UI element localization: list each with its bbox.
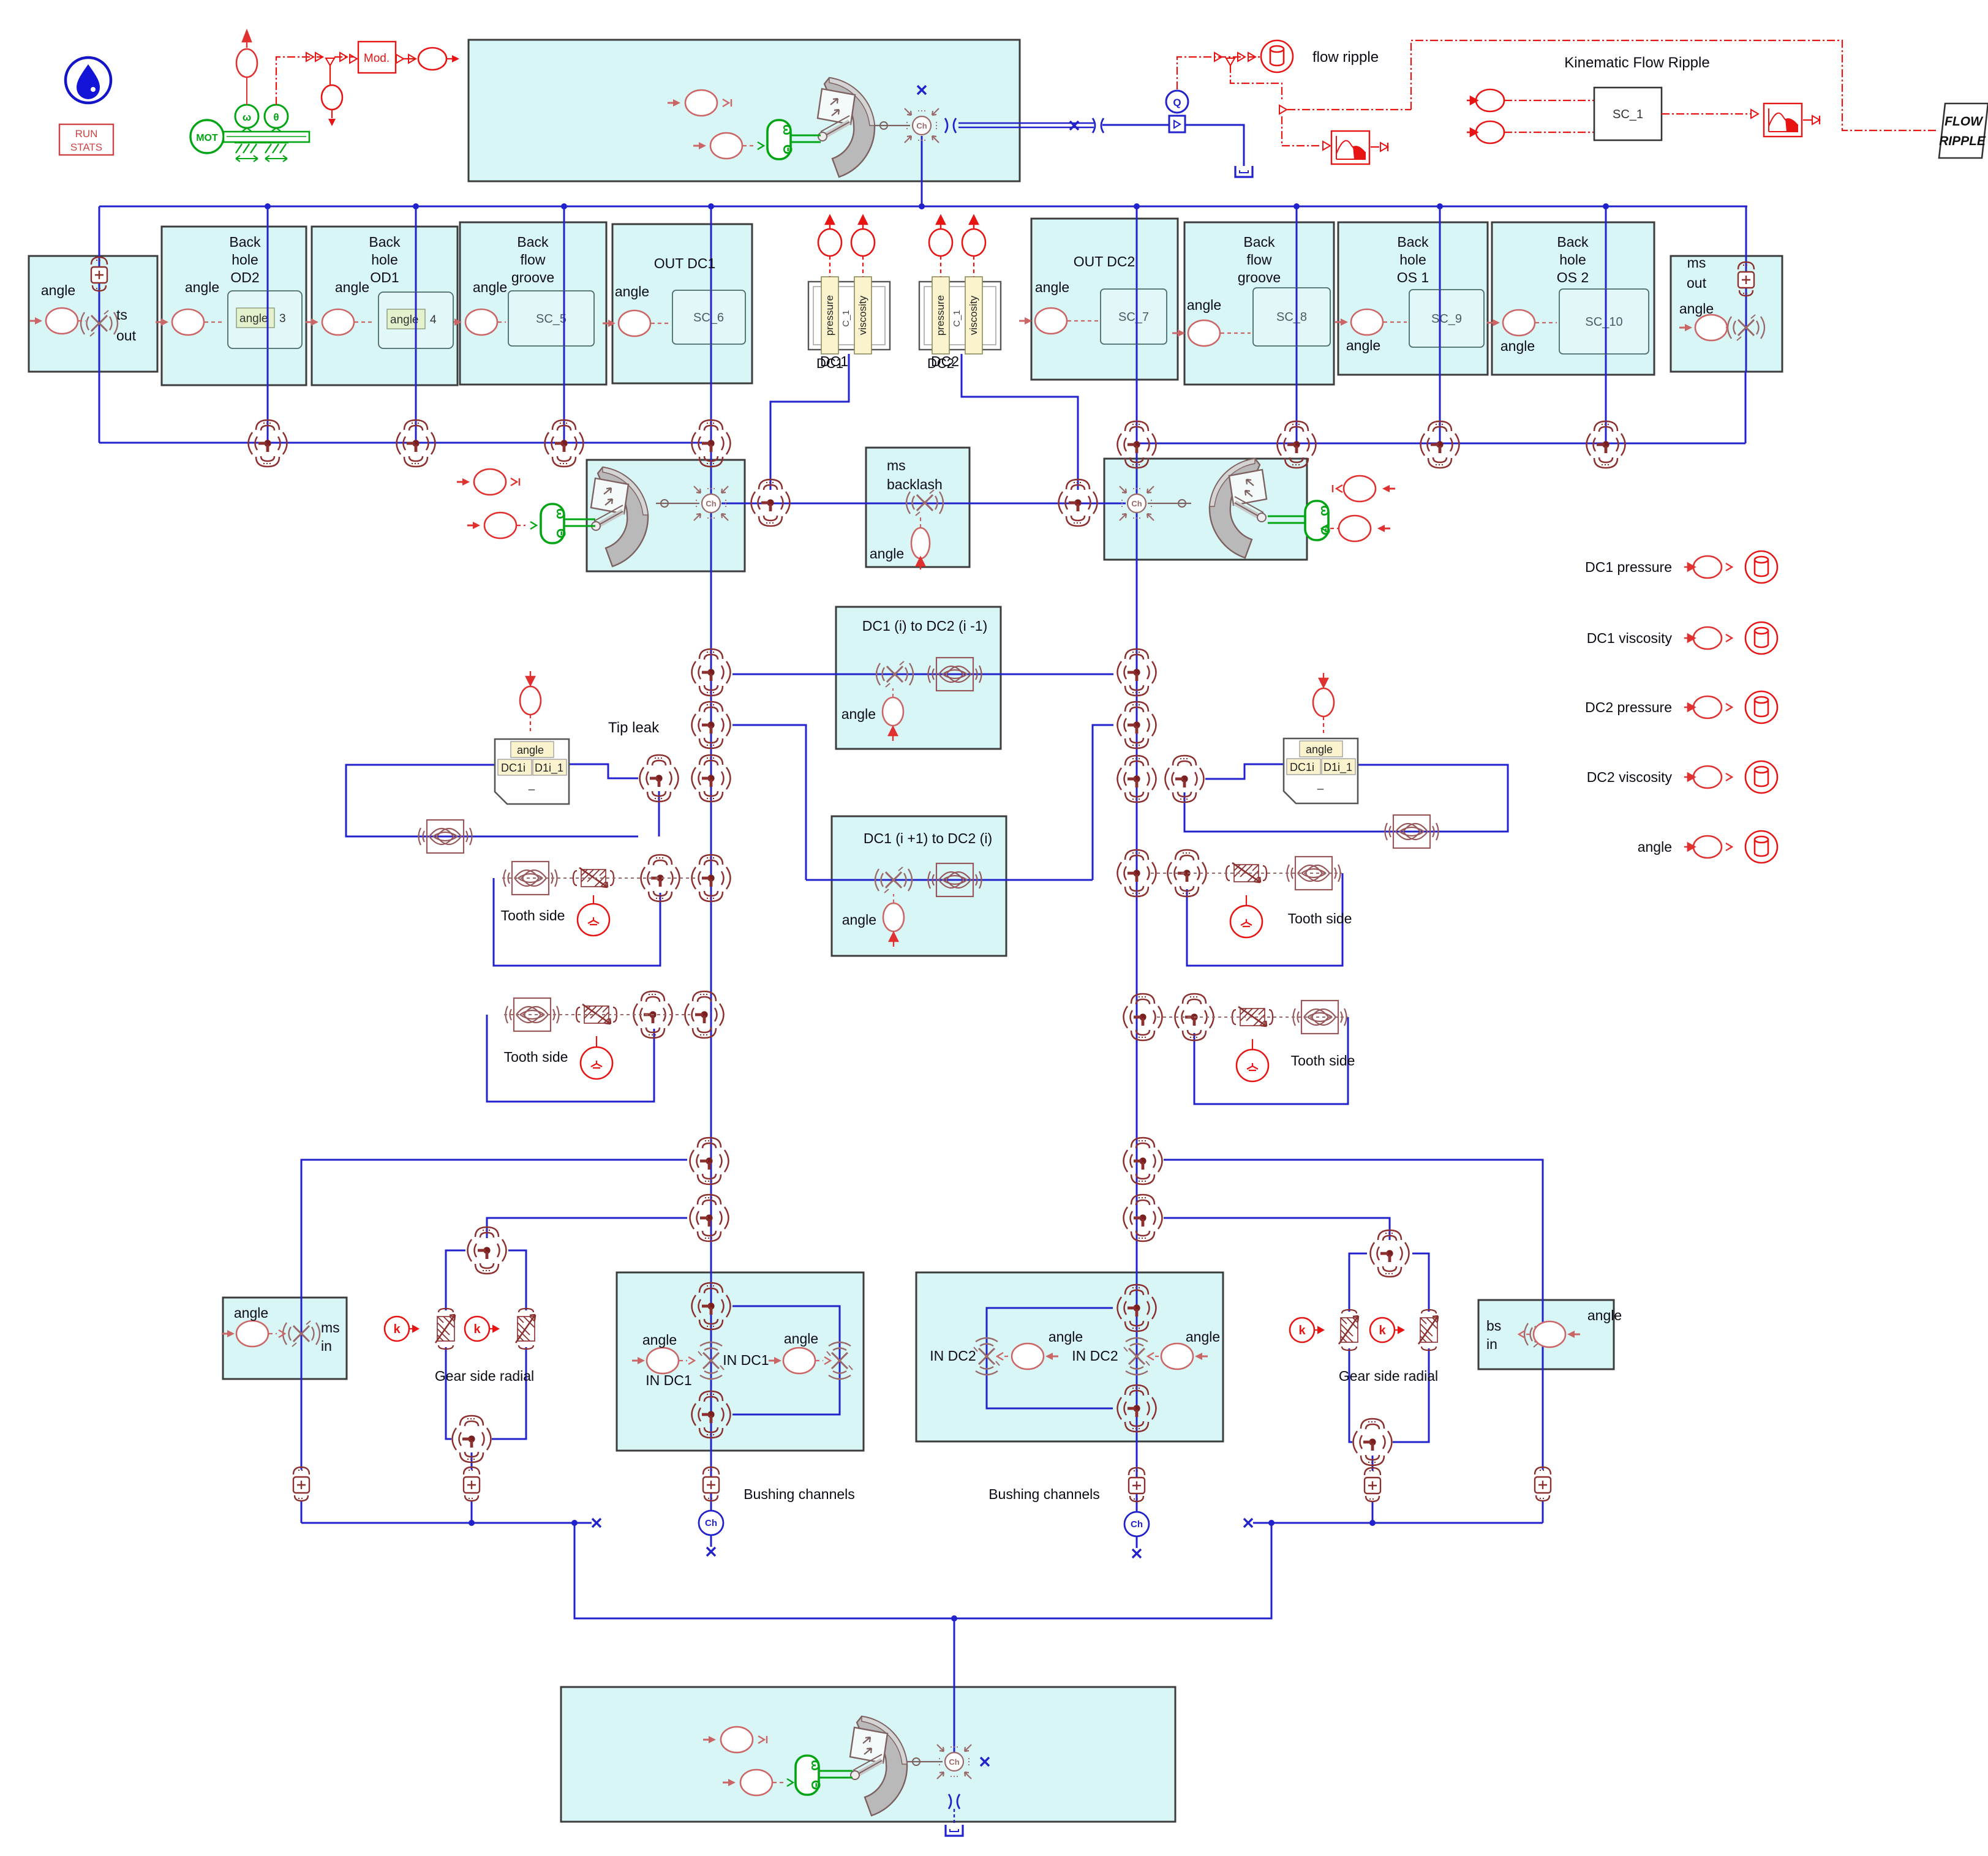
IN DC1 chain valve bottom xyxy=(692,1391,731,1438)
angle input arrow OS2 xyxy=(1487,319,1500,326)
wire gear right branch b xyxy=(1393,1253,1429,1442)
junction bottom collector xyxy=(951,1615,957,1621)
DC1(i+1) to DC2(i) box xyxy=(832,816,1006,956)
svg-text:_: _ xyxy=(528,778,535,791)
left pump green source capsule xyxy=(541,504,568,543)
chain R valve 4 xyxy=(1118,850,1156,896)
angle transducer OUT DC1 xyxy=(619,310,650,336)
tip leak left transducer xyxy=(520,686,541,715)
bs in X valve xyxy=(1524,1321,1561,1347)
right output tank DC1 viscosity xyxy=(1745,622,1777,654)
IN DC2 loop X valve xyxy=(974,1338,1000,1375)
branch down arrow xyxy=(328,119,336,126)
DC2 i link up xyxy=(893,894,894,903)
bs in link xyxy=(1526,1334,1534,1335)
sensor output transducer DC1 a xyxy=(818,216,842,277)
bottom pump link xyxy=(907,1761,943,1762)
tank bracket bottom xyxy=(946,1825,963,1836)
mod output stub xyxy=(446,58,452,59)
wire over SC9 xyxy=(1439,290,1441,347)
svg-text:SC_10: SC_10 xyxy=(1585,315,1622,329)
bs in angle in xyxy=(1567,1331,1580,1338)
theta signal line xyxy=(276,57,323,105)
DC2 i angle transducer xyxy=(883,903,904,931)
link OD2 xyxy=(205,321,222,323)
kinematic input transducer a xyxy=(1467,89,1504,111)
ms in X valve xyxy=(283,1321,320,1347)
branch transducer xyxy=(322,85,342,110)
IN DC2 right link xyxy=(1155,1356,1161,1357)
top box transducer1 xyxy=(685,90,717,116)
right output transducer DC1 viscosity xyxy=(1684,627,1732,649)
tooth1 right orifice xyxy=(1287,857,1341,890)
svg-text:SC_8: SC_8 xyxy=(1276,310,1307,324)
valve row L4 xyxy=(692,420,731,467)
line break top box xyxy=(945,118,956,133)
ts out subsystem box xyxy=(29,256,157,372)
tooth2 left orifice xyxy=(506,998,559,1031)
svg-text:IN DC1: IN DC1 xyxy=(723,1352,769,1368)
RUN STATS box xyxy=(59,124,113,155)
ms out plus xyxy=(1738,262,1754,296)
Back hole OD1 box xyxy=(312,227,457,385)
DC1 i link up xyxy=(892,688,894,697)
SC_9 block xyxy=(1409,290,1484,347)
SC_5 block xyxy=(508,291,594,346)
IN DC1 left angle in xyxy=(632,1357,645,1364)
junction top Ch xyxy=(919,203,925,209)
branch down line xyxy=(329,66,331,85)
svg-text:angle: angle xyxy=(517,744,544,756)
wire Back hole OS1 drop xyxy=(1439,206,1441,443)
ms out X valve xyxy=(1728,315,1764,340)
top box transducer2 green arrow xyxy=(758,142,764,149)
svg-text:flow ripple: flow ripple xyxy=(1312,49,1379,66)
IN DC2 chain valve bottom xyxy=(1118,1385,1156,1432)
line break before Q xyxy=(1093,118,1104,133)
wire over SC7 xyxy=(1136,289,1138,344)
svg-text:D1i_1: D1i_1 xyxy=(1323,761,1352,774)
tooth1 right row link xyxy=(1151,873,1342,874)
right shaft transducer1 xyxy=(1344,476,1376,502)
wire DC2 i box row xyxy=(806,879,1093,881)
top box transducer2 xyxy=(710,133,742,159)
junction groove R xyxy=(1293,203,1300,209)
IN DC1 right angle xyxy=(783,1348,815,1373)
left shaft transducer1 in xyxy=(457,478,470,486)
svg-text:angle: angle xyxy=(1049,1329,1083,1345)
DC2 i X valve xyxy=(875,867,912,893)
link ts out xyxy=(78,320,86,321)
valve row L3 xyxy=(545,420,584,467)
motor ground hatching xyxy=(235,143,288,162)
svg-text:DC1: DC1 xyxy=(820,353,848,369)
right shaft transducer2 in xyxy=(1377,525,1390,532)
bs in arrowhead xyxy=(1519,1331,1525,1338)
SC_1 block xyxy=(1594,88,1662,140)
IN DC2 chain valve top xyxy=(1118,1285,1156,1331)
line end X top box xyxy=(917,86,926,94)
fr branch down xyxy=(1230,65,1282,100)
arrow mod in xyxy=(350,54,357,63)
tip leak right link down xyxy=(1323,716,1324,733)
wire tooth side 1 right loop xyxy=(1187,873,1342,966)
svg-text:viscosity: viscosity xyxy=(857,295,868,335)
FLOW RIPPLE box xyxy=(1939,103,1988,158)
gear right top valve xyxy=(1371,1230,1409,1277)
chain L valve 1 xyxy=(692,649,731,696)
left pump xyxy=(591,467,648,566)
svg-text:out: out xyxy=(1687,275,1707,291)
wire Back hole OS2 drop xyxy=(1605,206,1607,443)
chain L valve 6 xyxy=(690,1138,729,1184)
right output tank angle xyxy=(1745,831,1777,863)
junction OUT DC1 xyxy=(708,203,714,209)
fft in arrow xyxy=(1323,141,1330,150)
svg-text:MOT: MOT xyxy=(196,133,218,143)
bottom box transducer2 green arrow xyxy=(787,1779,793,1786)
fr arrow 2 xyxy=(1238,53,1245,61)
top box transducer2 in xyxy=(693,142,706,149)
sensor output transducer DC2 b xyxy=(962,216,985,277)
ms in link xyxy=(269,1333,277,1334)
svg-text:angle: angle xyxy=(642,1332,677,1348)
Back hole OS1 box xyxy=(1338,222,1488,375)
svg-text:angle: angle xyxy=(390,314,419,326)
chain R valve 1 xyxy=(1118,649,1156,696)
wire Back hole OD2 drop xyxy=(267,206,269,443)
svg-text:DC2: DC2 xyxy=(931,353,959,369)
right output tank DC2 viscosity xyxy=(1745,761,1777,793)
junction bus left corner xyxy=(571,1520,578,1526)
angle input arrow OS1 xyxy=(1335,318,1348,326)
top pump link xyxy=(875,125,910,126)
angle input arrow ms out xyxy=(1679,324,1692,331)
wire left chain xyxy=(710,513,712,1451)
right pump link xyxy=(1148,503,1191,504)
bottom box transducer2 in xyxy=(723,1779,736,1786)
tip leak left T valve xyxy=(640,755,679,802)
wire ms in long wire xyxy=(301,1160,687,1470)
right output transducer DC1 pressure xyxy=(1684,556,1732,578)
junction gear left bus xyxy=(469,1520,475,1526)
DC2 i arrow up xyxy=(889,933,898,947)
right pump unit box xyxy=(1104,459,1307,560)
svg-text:Tooth side: Tooth side xyxy=(501,907,565,923)
svg-text:in: in xyxy=(1486,1336,1497,1352)
wire over angle4 xyxy=(415,292,417,348)
wire main top bus xyxy=(99,206,1747,208)
svg-text:OUT DC2: OUT DC2 xyxy=(1074,254,1135,269)
svg-text:DC1 (i +1) to DC2 (i): DC1 (i +1) to DC2 (i) xyxy=(864,830,992,846)
SC_8 block xyxy=(1253,288,1330,346)
wire IN DC2 inner loop xyxy=(987,1308,1113,1408)
wire left chain to Ch xyxy=(710,1451,712,1547)
ms in arrowhead xyxy=(279,1330,285,1337)
Back flow groove box right xyxy=(1184,222,1334,385)
kin link b xyxy=(1504,132,1594,133)
bottom box transducer2 link xyxy=(773,1782,784,1783)
IN DC2 left link xyxy=(1004,1356,1012,1357)
svg-text:DC1 pressure: DC1 pressure xyxy=(1585,559,1672,575)
valve row R2 xyxy=(1278,421,1316,468)
svg-text:angle: angle xyxy=(1306,743,1333,756)
svg-text:viscosity: viscosity xyxy=(968,295,979,335)
svg-text:backlash: backlash xyxy=(887,476,943,492)
svg-text:OD1: OD1 xyxy=(370,269,399,285)
svg-text:Bushing channels: Bushing channels xyxy=(988,1486,1100,1502)
junction gear right bus xyxy=(1369,1520,1376,1526)
gear right hatch a xyxy=(1339,1310,1358,1350)
SC_10 block xyxy=(1559,289,1649,354)
junction OD2 xyxy=(265,203,271,209)
tooth2 left row link xyxy=(504,1014,690,1015)
wire bs in long wire xyxy=(1164,1160,1543,1470)
ms out subsystem box xyxy=(1671,256,1782,372)
right pump green source capsule xyxy=(1305,501,1332,540)
svg-text:angle: angle xyxy=(185,279,219,295)
angle 4 block xyxy=(378,292,453,348)
ms in box xyxy=(223,1298,347,1379)
wire OUT DC2 drop to pump xyxy=(1136,206,1138,494)
IN DC1 left angle xyxy=(647,1348,679,1373)
gear left top valve xyxy=(468,1227,506,1274)
Back hole OS2 box xyxy=(1492,222,1654,375)
angle 3 block xyxy=(228,291,302,348)
chain L valve 7 xyxy=(690,1195,729,1241)
mod out arrow2 xyxy=(409,54,416,63)
DC1(i) to DC2(i-1) box xyxy=(836,607,1001,749)
tank bracket top right xyxy=(1235,166,1252,177)
IN DC1 right angle in xyxy=(769,1357,781,1364)
wire tooth side 2 right loop xyxy=(1194,1017,1348,1104)
valve row R4 xyxy=(1587,421,1625,468)
fr arrow 3 xyxy=(1248,53,1256,61)
gear left plus xyxy=(464,1467,480,1501)
valve row L1 xyxy=(249,420,287,467)
line end X right Ch xyxy=(1132,1549,1141,1558)
angle input arrow OD1 xyxy=(306,318,318,326)
chain R valve 6 xyxy=(1124,1138,1162,1184)
link OS2 xyxy=(1535,322,1557,323)
right green double line xyxy=(1268,516,1305,523)
left shaft transducer1 xyxy=(474,469,506,495)
bottom box transducer1 in xyxy=(703,1736,716,1743)
wire ms out riser xyxy=(1745,372,1747,443)
svg-text:angle: angle xyxy=(842,706,876,722)
wire IN DC1 inner loop xyxy=(732,1306,840,1415)
svg-text:OS 1: OS 1 xyxy=(1397,269,1429,285)
bs in plus xyxy=(1535,1467,1551,1501)
svg-text:SC_1: SC_1 xyxy=(1613,108,1643,121)
IN DC2 right angle xyxy=(1161,1343,1193,1369)
gear right bottom valve xyxy=(1354,1419,1392,1465)
gear right k1 xyxy=(1290,1318,1323,1342)
svg-text:SC_9: SC_9 xyxy=(1431,312,1462,326)
left shaft transducer2 link xyxy=(517,525,525,526)
SC1 out arrow xyxy=(1751,110,1758,118)
tooth1 right hatch valve xyxy=(1226,863,1267,882)
tip leak left orifice xyxy=(419,820,472,853)
valve row R1 xyxy=(1118,421,1156,468)
svg-text:Ch: Ch xyxy=(1131,1519,1143,1530)
Back flow groove box left xyxy=(460,222,606,385)
svg-text:Back: Back xyxy=(369,234,401,250)
top pump unit box xyxy=(469,40,1020,181)
angle transducer groove R xyxy=(1188,320,1220,346)
tooth1 left hatch valve xyxy=(573,868,614,887)
tooth1 right T valve xyxy=(1168,850,1207,896)
line break bottom box xyxy=(949,1794,960,1809)
tip leak right DC1i block xyxy=(1284,738,1358,803)
wire ts out drop xyxy=(99,206,100,443)
wire right chain xyxy=(1136,513,1138,1441)
gear left bottom valve xyxy=(453,1416,491,1462)
wire ms in to bus xyxy=(301,1501,303,1523)
left shaft transducer2 green arrow xyxy=(530,522,537,529)
angle input arrow ts out xyxy=(29,317,42,325)
svg-text:angle: angle xyxy=(870,546,904,562)
tooth2 right sensor stem xyxy=(1252,1039,1253,1050)
wire tip leak left riser xyxy=(658,791,660,836)
angle transducer OD2 xyxy=(172,309,204,335)
right shaft transducer2 link xyxy=(1330,528,1339,529)
OUT DC1 box xyxy=(612,224,752,383)
tooth2 left sensor xyxy=(581,1047,612,1079)
svg-text:4: 4 xyxy=(430,314,437,326)
right output tank DC2 pressure xyxy=(1745,691,1777,723)
label Back hole OD2 title xyxy=(229,234,261,285)
svg-text:angle: angle xyxy=(615,284,649,299)
bs in box xyxy=(1478,1300,1614,1369)
fr arrow 1 xyxy=(1214,53,1222,61)
svg-text:DC2 viscosity: DC2 viscosity xyxy=(1587,769,1673,785)
wire gear right branch a xyxy=(1349,1253,1367,1442)
svg-text:RUN: RUN xyxy=(75,128,98,140)
wire bottom bus right xyxy=(1253,1522,1543,1524)
svg-text:angle: angle xyxy=(1679,301,1714,317)
svg-text:3: 3 xyxy=(279,312,286,325)
angle transducer groove L xyxy=(465,309,497,335)
link groove R xyxy=(1221,333,1251,334)
ms backlash X valve xyxy=(906,490,943,516)
angle transducer OS2 xyxy=(1503,310,1535,336)
right output tank DC1 pressure xyxy=(1745,551,1777,583)
svg-text:ms: ms xyxy=(887,457,906,473)
tooth2 right orifice xyxy=(1293,1001,1347,1034)
right pump mirrored xyxy=(1210,459,1267,558)
link OS1 xyxy=(1384,321,1407,323)
sensor output transducer DC2 a xyxy=(929,216,952,277)
svg-text:FLOW: FLOW xyxy=(1945,115,1984,129)
left shaft transducer1 out xyxy=(511,478,517,486)
right output transducer DC2 pressure xyxy=(1684,696,1732,718)
kinematic input transducer b xyxy=(1467,121,1504,143)
svg-text:ms: ms xyxy=(1687,255,1706,271)
svg-text:pressure: pressure xyxy=(935,295,946,336)
IN DC1 plus xyxy=(703,1467,719,1501)
fr junction xyxy=(1226,58,1235,66)
right shaft transducer2 xyxy=(1339,516,1371,541)
wire top pump to Q xyxy=(1102,125,1244,166)
svg-text:angle: angle xyxy=(473,279,507,295)
fr long line xyxy=(1287,109,1411,110)
svg-text:angle: angle xyxy=(842,912,876,928)
tip leak right T valve xyxy=(1165,756,1204,802)
wire over SC8 xyxy=(1296,288,1298,346)
tooth1 left orifice xyxy=(504,862,557,895)
angle transducer OS1 xyxy=(1351,309,1383,335)
tooth2 right row link xyxy=(1157,1016,1348,1018)
IN DC2 left angle xyxy=(1012,1343,1044,1369)
wire tip leak left link xyxy=(569,764,638,778)
svg-text:_: _ xyxy=(1317,778,1324,791)
left pump Ch node xyxy=(694,486,728,520)
gear left hatch a xyxy=(435,1309,455,1349)
wire right chain to Ch xyxy=(1136,1441,1138,1548)
wire tooth side 1 left loop xyxy=(494,878,660,966)
OUT DC2 box xyxy=(1031,219,1178,380)
svg-text:ω: ω xyxy=(243,111,251,123)
link OD1 xyxy=(355,321,372,323)
right shaft transducer1 out bar xyxy=(1332,485,1333,492)
motor speed sensor omega xyxy=(235,105,258,131)
wire bottom collector xyxy=(574,1523,1271,1618)
top box transducer1 in xyxy=(668,99,680,107)
svg-text:angle: angle xyxy=(1587,1307,1622,1323)
motor speed transducer xyxy=(236,31,257,105)
svg-text:angle: angle xyxy=(1346,337,1380,353)
wire bottom pump feed xyxy=(954,1618,955,1752)
angle input arrow OUT DC2 xyxy=(1019,317,1032,325)
mod input line xyxy=(334,56,354,58)
top pump Ch node xyxy=(905,108,939,143)
IN DC1 right link xyxy=(816,1360,823,1361)
svg-text:angle: angle xyxy=(1500,338,1535,354)
chain R valve 5 xyxy=(1124,994,1162,1040)
bottom pump green source capsule xyxy=(796,1756,823,1795)
SC_6 block xyxy=(672,290,745,344)
svg-text:DC1 viscosity: DC1 viscosity xyxy=(1587,630,1673,646)
gear left k1 xyxy=(385,1317,418,1341)
fft out xyxy=(1371,146,1379,148)
angle input arrow OD2 xyxy=(156,318,168,326)
motor angle sensor theta xyxy=(265,105,288,131)
DC1 i arrow up xyxy=(889,727,897,741)
gear left k2 xyxy=(465,1317,499,1341)
IN DC2 box xyxy=(916,1272,1223,1441)
fr tri right xyxy=(1279,105,1287,114)
svg-text:ms: ms xyxy=(321,1320,340,1336)
arrow to mod 2 xyxy=(315,53,323,61)
svg-text:Back: Back xyxy=(517,234,549,250)
tip leak left arrow down xyxy=(526,671,535,685)
bottom pump xyxy=(850,1716,907,1816)
angle input arrow groove L xyxy=(449,318,462,326)
gear right plus xyxy=(1365,1468,1380,1501)
svg-text:OS 2: OS 2 xyxy=(1557,269,1589,285)
angle transducer ts out xyxy=(46,308,78,334)
wire over SC10 xyxy=(1605,289,1607,354)
DC1 i orifice xyxy=(928,658,982,691)
top pump xyxy=(818,78,875,177)
valve row R3 xyxy=(1421,421,1459,468)
DC1 pressure viscosity sensor group xyxy=(808,277,890,371)
svg-text:groove: groove xyxy=(1238,269,1281,285)
tooth1 right sensor xyxy=(1230,906,1262,937)
svg-text:flow: flow xyxy=(1247,252,1272,268)
IN DC1 loop X valve xyxy=(827,1342,853,1379)
